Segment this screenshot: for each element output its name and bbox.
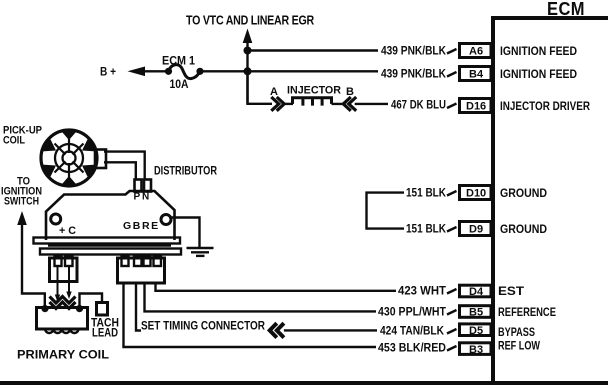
svg-text:INJECTOR DRIVER: INJECTOR DRIVER: [500, 99, 590, 113]
wire 430 PPL/WHT to B5: [145, 283, 377, 311]
junction dot coil left: [41, 305, 48, 312]
set timing connector chevron: [270, 323, 284, 337]
wire 467 DK BLU to D16: [332, 103, 389, 105]
svg-text:GBRE: GBRE: [123, 220, 160, 232]
tick A6: [447, 49, 457, 54]
svg-text:423 WHT: 423 WHT: [398, 286, 446, 298]
svg-text:GROUND: GROUND: [500, 186, 547, 200]
svg-text:453 BLK/RED: 453 BLK/RED: [378, 343, 446, 355]
svg-text:D9: D9: [469, 224, 483, 236]
ECM boundary: [493, 0, 608, 385]
svg-text:B +: B +: [100, 65, 116, 79]
wire left connector to coil -: [66, 266, 71, 299]
svg-text:467 DK BLU: 467 DK BLU: [391, 100, 446, 112]
primary coil winding zigzag: [50, 297, 76, 309]
module connector right: [118, 257, 165, 284]
wire 423 WHT to D4: [156, 283, 397, 291]
wire set timing stub: [136, 283, 141, 331]
wire 439 PNK/BLK to A6: [248, 49, 379, 51]
svg-text:+ C: + C: [59, 225, 76, 237]
pin B4: [460, 67, 492, 81]
svg-text:BYPASS: BYPASS: [498, 325, 535, 339]
svg-text:151 BLK: 151 BLK: [406, 224, 447, 236]
tick D4: [447, 289, 457, 294]
svg-text:151 BLK: 151 BLK: [406, 188, 447, 200]
pick-up coil connector stub: [95, 150, 106, 169]
wire tach lead: [80, 294, 103, 309]
distributor base plate upper: [34, 238, 181, 244]
svg-text:COIL: COIL: [3, 135, 25, 147]
svg-text:DISTRIBUTOR: DISTRIBUTOR: [154, 166, 218, 178]
wire injector driver segment: [248, 71, 273, 104]
label PICK-UP COIL: [3, 125, 42, 147]
pin D5: [460, 324, 492, 337]
svg-text:GROUND: GROUND: [500, 222, 547, 236]
pin D4: [460, 285, 492, 298]
wire 439 PNK/BLK to B4: [200, 70, 378, 72]
tick B4: [447, 72, 457, 77]
tick D10: [447, 191, 457, 196]
svg-text:B5: B5: [469, 307, 483, 319]
tick D9: [447, 227, 457, 232]
pin D10: [460, 186, 492, 200]
svg-text:424 TAN/BLK: 424 TAN/BLK: [380, 326, 445, 338]
svg-text:D10: D10: [466, 188, 486, 200]
wire to injector coil: [284, 103, 293, 105]
wire pickup to P pin: [104, 162, 136, 179]
tach lead box: [97, 303, 108, 316]
label TACH LEAD: [91, 318, 119, 340]
wire pickup to N pin: [104, 152, 145, 179]
pin D9: [460, 222, 492, 236]
svg-text:IGNITION FEED: IGNITION FEED: [500, 44, 577, 58]
svg-text:A: A: [270, 86, 278, 98]
svg-text:LEAD: LEAD: [92, 328, 118, 340]
svg-text:PN: PN: [134, 192, 152, 203]
svg-text:A6: A6: [469, 46, 483, 58]
node B+: [100, 65, 168, 79]
svg-text:TO VTC AND LINEAR EGR: TO VTC AND LINEAR EGR: [186, 13, 315, 28]
junction dot B+ branch: [244, 67, 252, 75]
svg-text:439 PNK/BLK: 439 PNK/BLK: [381, 69, 447, 81]
pin B3: [460, 343, 492, 356]
svg-text:ECM 1: ECM 1: [162, 56, 196, 68]
svg-text:SET TIMING CONNECTOR: SET TIMING CONNECTOR: [141, 321, 266, 333]
svg-text:REF LOW: REF LOW: [498, 339, 541, 353]
pin B5: [460, 306, 492, 319]
svg-text:10A: 10A: [170, 79, 189, 91]
pin D16: [460, 99, 492, 113]
distributor base mid line: [48, 245, 171, 247]
tick B3: [447, 346, 457, 351]
svg-text:D16: D16: [466, 101, 486, 113]
svg-text:430 PPL/WHT: 430 PPL/WHT: [378, 307, 446, 319]
ground symbol: [187, 248, 214, 256]
svg-text:ECM: ECM: [547, 0, 585, 19]
wire 424 TAN/BLK to D5: [284, 329, 377, 331]
junction dot coil right: [76, 305, 83, 312]
module pin N: [144, 180, 151, 192]
svg-text:EST: EST: [498, 284, 525, 298]
module connector left: [50, 257, 78, 282]
svg-text:D5: D5: [469, 325, 483, 337]
svg-text:REFERENCE: REFERENCE: [498, 305, 556, 319]
fuse ECM 1 10A: [162, 56, 204, 92]
junction dot A6 branch: [244, 47, 252, 55]
wire left connector to coil +: [55, 266, 60, 302]
injector coil L1: [287, 85, 341, 106]
connector B chevron: [343, 86, 356, 111]
svg-text:B3: B3: [469, 344, 483, 356]
tick B5: [447, 310, 457, 315]
ground tie bracket: [367, 193, 405, 229]
svg-text:B: B: [346, 86, 354, 98]
tick D16: [447, 104, 457, 109]
primary coil body: [37, 308, 88, 334]
connector A chevron: [270, 86, 284, 111]
ignition module body: [46, 191, 175, 240]
svg-text:INJECTOR: INJECTOR: [287, 85, 341, 97]
wire module to ground: [171, 218, 200, 248]
wire to ignition switch with arrow: [17, 211, 45, 306]
svg-text:PRIMARY COIL: PRIMARY COIL: [17, 350, 109, 362]
module pin P: [135, 180, 142, 192]
svg-text:IGNITION FEED: IGNITION FEED: [500, 67, 577, 81]
bottom border line: [0, 381, 608, 385]
pick-up coil reluctor: [41, 130, 98, 186]
node VTC/EGR feed arrow: [186, 13, 315, 104]
svg-text:D4: D4: [469, 286, 484, 298]
svg-text:439 PNK/BLK: 439 PNK/BLK: [381, 46, 447, 58]
svg-text:B4: B4: [469, 69, 484, 81]
pin A6: [460, 44, 492, 58]
wire 453 BLK/RED to B3: [124, 283, 377, 347]
tick D5: [447, 329, 457, 334]
svg-text:SWITCH: SWITCH: [4, 196, 39, 208]
label TO IGNITION SWITCH: [1, 176, 42, 208]
distributor base plate lower: [40, 249, 181, 255]
